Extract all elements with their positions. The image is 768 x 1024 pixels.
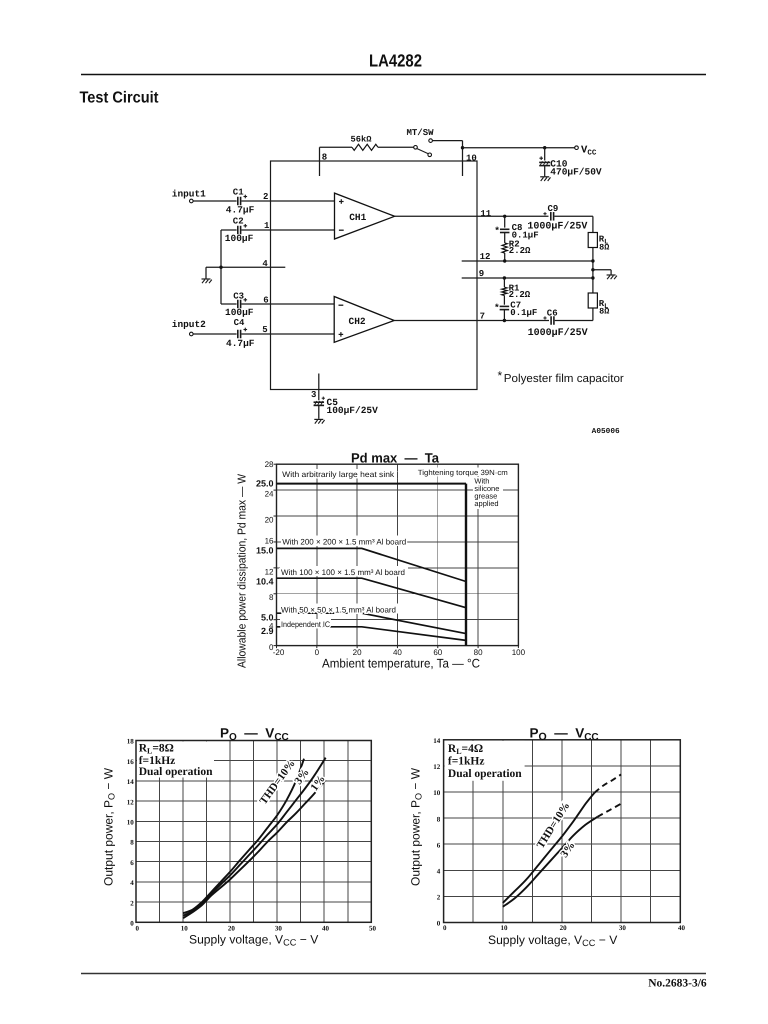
svg-text:470µF/50V: 470µF/50V bbox=[550, 166, 602, 177]
svg-text:10: 10 bbox=[433, 789, 441, 797]
svg-text:With arbitrarily large heat si: With arbitrarily large heat sink bbox=[282, 470, 395, 479]
svg-text:30: 30 bbox=[619, 924, 627, 932]
svg-text:LA4282: LA4282 bbox=[369, 51, 422, 71]
svg-text:50: 50 bbox=[369, 924, 377, 932]
svg-text:Independent IC: Independent IC bbox=[281, 620, 330, 629]
svg-text:11: 11 bbox=[480, 209, 491, 219]
svg-text:10: 10 bbox=[127, 819, 135, 827]
svg-text:0: 0 bbox=[315, 648, 320, 657]
svg-text:C1: C1 bbox=[233, 187, 244, 197]
svg-text:100µF: 100µF bbox=[225, 307, 254, 318]
svg-text:10: 10 bbox=[466, 154, 477, 164]
svg-text:CH1: CH1 bbox=[349, 212, 366, 223]
svg-text:0.1µF: 0.1µF bbox=[510, 308, 537, 318]
svg-text:28: 28 bbox=[265, 460, 274, 469]
svg-text:10.4: 10.4 bbox=[256, 576, 274, 586]
svg-text:8: 8 bbox=[437, 815, 441, 823]
svg-text:2.2Ω: 2.2Ω bbox=[509, 290, 531, 300]
svg-text:14: 14 bbox=[127, 778, 135, 786]
svg-text:8Ω: 8Ω bbox=[599, 307, 609, 317]
svg-text:12: 12 bbox=[480, 252, 491, 262]
svg-text:100µF: 100µF bbox=[225, 233, 254, 244]
svg-text:With 50 × 50 × 1.5 mm³ Al boar: With 50 × 50 × 1.5 mm³ Al board bbox=[281, 605, 396, 614]
svg-text:6: 6 bbox=[263, 295, 268, 305]
svg-text:Polyester film capacitor: Polyester film capacitor bbox=[504, 373, 624, 385]
svg-text:12: 12 bbox=[127, 798, 135, 806]
svg-text:24: 24 bbox=[265, 490, 274, 499]
svg-text:0: 0 bbox=[135, 924, 139, 932]
svg-text:2: 2 bbox=[437, 894, 441, 902]
svg-text:30: 30 bbox=[275, 924, 283, 932]
svg-text:2: 2 bbox=[263, 192, 268, 202]
svg-text:9: 9 bbox=[479, 269, 484, 279]
svg-text:2: 2 bbox=[130, 899, 134, 907]
svg-text:6: 6 bbox=[437, 841, 441, 849]
svg-text:14: 14 bbox=[433, 737, 441, 745]
svg-text:20: 20 bbox=[265, 515, 274, 524]
svg-text:Supply voltage, VCC − V: Supply voltage, VCC − V bbox=[488, 933, 618, 948]
svg-text:8: 8 bbox=[269, 593, 274, 602]
svg-text:1: 1 bbox=[264, 221, 270, 231]
svg-text:7: 7 bbox=[480, 312, 485, 322]
svg-text:C9: C9 bbox=[548, 204, 559, 214]
svg-text:Allowable power dissipation, P: Allowable power dissipation, Pd max — W bbox=[237, 474, 249, 668]
svg-text:applied: applied bbox=[474, 499, 498, 508]
svg-text:Ambient temperature, Ta — °C: Ambient temperature, Ta — °C bbox=[322, 657, 480, 671]
svg-text:0: 0 bbox=[130, 920, 134, 928]
svg-text:RL=8Ω: RL=8Ω bbox=[139, 743, 174, 756]
svg-text:Test Circuit: Test Circuit bbox=[80, 90, 160, 107]
svg-text:MT/SW: MT/SW bbox=[407, 128, 435, 138]
svg-text:5: 5 bbox=[262, 325, 267, 335]
svg-text:56kΩ: 56kΩ bbox=[351, 135, 372, 145]
svg-text:40: 40 bbox=[678, 924, 686, 932]
svg-text:-20: -20 bbox=[273, 648, 285, 657]
svg-text:*: * bbox=[494, 225, 500, 236]
svg-text:Pd max — Ta: Pd max — Ta bbox=[351, 450, 439, 465]
svg-text:18: 18 bbox=[127, 738, 135, 746]
svg-text:40: 40 bbox=[322, 924, 330, 932]
svg-text:6: 6 bbox=[130, 859, 134, 867]
svg-text:No.2683-3/6: No.2683-3/6 bbox=[648, 978, 707, 990]
svg-text:20: 20 bbox=[560, 924, 568, 932]
svg-text:Dual operation: Dual operation bbox=[139, 766, 213, 778]
svg-text:4.7µF: 4.7µF bbox=[226, 338, 255, 349]
svg-text:Output power, PO − W: Output power, PO − W bbox=[409, 767, 424, 886]
svg-text:3: 3 bbox=[311, 390, 316, 400]
svg-text:12: 12 bbox=[433, 763, 441, 771]
svg-text:8: 8 bbox=[322, 153, 327, 163]
svg-text:f=1kHz: f=1kHz bbox=[448, 756, 485, 768]
svg-text:*: * bbox=[498, 369, 503, 383]
svg-text:Tightening torque 39N·cm: Tightening torque 39N·cm bbox=[418, 468, 508, 477]
svg-text:CH2: CH2 bbox=[349, 316, 366, 327]
svg-text:C3: C3 bbox=[233, 291, 244, 301]
svg-text:20: 20 bbox=[228, 924, 236, 932]
svg-text:4: 4 bbox=[130, 879, 134, 887]
svg-text:10: 10 bbox=[500, 924, 508, 932]
svg-text:25.0: 25.0 bbox=[256, 479, 274, 489]
svg-text:input2: input2 bbox=[172, 319, 206, 330]
svg-text:16: 16 bbox=[127, 758, 135, 766]
svg-text:C4: C4 bbox=[234, 318, 245, 328]
svg-text:4.7µF: 4.7µF bbox=[226, 204, 255, 215]
svg-text:C6: C6 bbox=[547, 309, 558, 319]
svg-text:2.9: 2.9 bbox=[261, 626, 274, 636]
svg-text:Supply voltage, VCC − V: Supply voltage, VCC − V bbox=[189, 933, 319, 948]
svg-text:Dual operation: Dual operation bbox=[448, 768, 522, 780]
svg-text:A05006: A05006 bbox=[592, 427, 621, 436]
svg-text:8Ω: 8Ω bbox=[599, 242, 609, 252]
svg-text:100µF/25V: 100µF/25V bbox=[327, 405, 379, 416]
svg-text:4: 4 bbox=[437, 868, 441, 876]
svg-text:15.0: 15.0 bbox=[256, 546, 274, 556]
svg-text:C2: C2 bbox=[233, 216, 244, 226]
svg-text:Output power, PO − W: Output power, PO − W bbox=[102, 767, 117, 886]
svg-text:2.2Ω: 2.2Ω bbox=[509, 246, 531, 256]
svg-text:With 200 × 200 × 1.5 mm³ Al bo: With 200 × 200 × 1.5 mm³ Al board bbox=[282, 537, 406, 546]
svg-text:16: 16 bbox=[265, 536, 274, 545]
svg-text:RL=4Ω: RL=4Ω bbox=[448, 743, 483, 756]
svg-text:8: 8 bbox=[130, 839, 134, 847]
svg-text:0: 0 bbox=[443, 924, 447, 932]
svg-text:100: 100 bbox=[512, 648, 526, 657]
svg-text:4: 4 bbox=[262, 259, 268, 269]
svg-text:0: 0 bbox=[437, 920, 441, 928]
svg-text:10: 10 bbox=[181, 924, 189, 932]
svg-text:input1: input1 bbox=[172, 188, 206, 199]
svg-text:With 100 × 100 × 1.5 mm³ Al bo: With 100 × 100 × 1.5 mm³ Al board bbox=[281, 568, 405, 577]
svg-text:12: 12 bbox=[265, 568, 274, 577]
svg-text:1000µF/25V: 1000µF/25V bbox=[528, 327, 588, 339]
svg-text:*: * bbox=[494, 303, 500, 314]
